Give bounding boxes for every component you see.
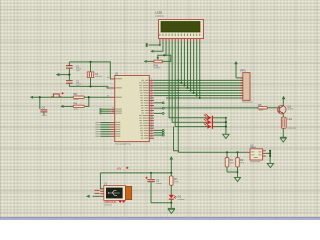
diode D5 over MCLR wire bbox=[51, 92, 64, 97]
LCD pins 1-14 bbox=[160, 38, 200, 41]
LED D2 bbox=[204, 114, 213, 120]
MCU left pin OSC2 bbox=[107, 86, 115, 88]
wire bus row D6 MCU to RP1 bbox=[154, 94, 243, 96]
wire MCLR net right bbox=[84, 96, 110, 98]
wire bus row D4 MCU to RP1 bbox=[154, 89, 243, 91]
wire bottom rail bbox=[100, 172, 172, 174]
wire LED D4 anode bbox=[205, 126, 207, 128]
capacitor C3 labels bbox=[156, 179, 162, 184]
svg-text:USBCONN: USBCONN bbox=[104, 201, 117, 204]
wire LCD VEE to pot wiper bbox=[158, 41, 166, 58]
crystal X1 labels bbox=[95, 72, 102, 77]
MCU left port-D pin 2 bbox=[95, 127, 114, 128]
svg-text:PIC16F877A: PIC16F877A bbox=[116, 142, 132, 146]
crystal X1 body bbox=[87, 72, 93, 78]
wire OSC2 net bbox=[69, 85, 110, 88]
RP1 part number bbox=[242, 102, 253, 103]
sounder LS1 labels bbox=[288, 118, 297, 128]
MCU NC stub y132.7 bbox=[154, 132, 164, 134]
svg-text:X1: X1 bbox=[95, 72, 99, 76]
capacitor C2 bbox=[66, 75, 73, 87]
svg-text:U2: U2 bbox=[115, 72, 119, 76]
MCU right pins bbox=[149, 80, 154, 138]
wire ground node to C3 bbox=[151, 202, 171, 204]
potentiometer RV1 labels bbox=[154, 64, 161, 69]
resistor pack RP1 label bbox=[241, 68, 247, 72]
wire R1-R2 join bbox=[227, 171, 238, 173]
wire LCD RW down to LED row bbox=[172, 41, 205, 122]
wire bus row D0 MCU to RP1 bbox=[154, 79, 243, 81]
MCU left port-D pin 5 bbox=[95, 133, 114, 134]
MCU NC stub y135.1 bbox=[154, 134, 164, 136]
MCU NC stub y108.15 bbox=[154, 107, 164, 109]
resistor R8 labels bbox=[74, 92, 79, 100]
transistor Q1 bbox=[277, 105, 286, 114]
svg-text:LS1: LS1 bbox=[288, 118, 293, 121]
MCU NC stub y113.4 bbox=[154, 112, 164, 114]
wire LCD D7 down bbox=[199, 41, 201, 99]
LED D3 bbox=[204, 118, 213, 124]
LCD pin name labels bbox=[159, 33, 200, 36]
wire U3 out bus bbox=[269, 150, 271, 157]
wire pot right up bbox=[162, 55, 171, 61]
MCU left mid pin 2 bbox=[99, 112, 114, 115]
resistor R1 body bbox=[225, 152, 229, 172]
window left edge bbox=[0, 0, 2, 220]
wire LED D3 cathode bbox=[213, 121, 226, 123]
terminal arrow VDD bbox=[150, 50, 153, 53]
wire LCD D2 down bbox=[183, 41, 185, 86]
USB connector J1 label bbox=[104, 182, 107, 186]
svg-text:RP1: RP1 bbox=[241, 68, 247, 72]
RP1 pins bbox=[240, 78, 242, 98]
wire Q1 collector bbox=[282, 99, 284, 105]
pot wiper arrow bbox=[157, 57, 160, 60]
wire crystal bottom bbox=[90, 78, 92, 87]
svg-text:LCD1: LCD1 bbox=[155, 10, 163, 14]
LED D1 bbox=[169, 195, 177, 200]
wire LCD D1 down bbox=[180, 41, 182, 84]
terminal arrow R4 bbox=[60, 105, 63, 108]
wire bus row D2 MCU to RP1 bbox=[154, 84, 243, 86]
microcontroller U2 label bbox=[115, 72, 119, 76]
wire LCD D5 down bbox=[193, 41, 195, 94]
power terminal Q1 bbox=[282, 96, 286, 100]
wire rail to J1 pin1 bbox=[100, 173, 103, 189]
U3 right pins bbox=[263, 151, 266, 156]
wire LS1 to ground bbox=[282, 128, 284, 137]
sounder LS1 body bbox=[281, 117, 286, 128]
wire MCLR net left bbox=[33, 96, 73, 98]
wire R2 to ground bbox=[237, 172, 239, 177]
wire D1 to ground node bbox=[170, 200, 172, 204]
MCU left port-D pin 0 bbox=[95, 122, 114, 123]
wire U3 out down bbox=[269, 157, 271, 164]
MCU left mid pin 0 bbox=[99, 107, 114, 110]
microcontroller U2 body bbox=[115, 76, 150, 142]
capacitor C4 bbox=[40, 109, 47, 115]
MCU left port-D pin 1 bbox=[95, 124, 114, 125]
capacitor C2 labels bbox=[76, 79, 81, 86]
svg-text:C4: C4 bbox=[42, 106, 46, 110]
svg-text:R7: R7 bbox=[174, 178, 178, 181]
svg-text:+5V: +5V bbox=[117, 167, 122, 171]
potentiometer RV1 body bbox=[154, 60, 162, 63]
resistor pack RP1 body bbox=[243, 73, 250, 101]
wire bus row D3 MCU to RP1 bbox=[154, 87, 243, 89]
MCU left port-D pin 6 bbox=[95, 136, 114, 137]
wire LCD VDD to terminal bbox=[153, 41, 163, 51]
wire bus row D7 to RP1 bbox=[166, 97, 243, 99]
regulator U3 part number bbox=[250, 161, 260, 162]
resistor R2 body bbox=[236, 152, 240, 172]
wire C4 lead bbox=[39, 97, 41, 109]
wire base R6 left bbox=[164, 107, 258, 109]
wire LED D4 cathode bbox=[213, 126, 226, 128]
MCU left port-D pin 4 bbox=[95, 131, 114, 132]
resistor R1 labels bbox=[230, 159, 234, 163]
MCU left mid pin 1 bbox=[99, 109, 114, 112]
resistor R4 labels bbox=[74, 102, 79, 110]
svg-text:C3: C3 bbox=[156, 179, 160, 182]
wire Q1 emitter bbox=[282, 114, 284, 118]
ground (D1) bbox=[168, 208, 175, 213]
wire LCD D3 down bbox=[186, 41, 188, 89]
resistor R6 labels bbox=[258, 104, 263, 110]
power terminal bottom bbox=[169, 156, 173, 173]
regulator U3 body bbox=[250, 149, 263, 160]
USB J1 pins bbox=[100, 189, 104, 197]
resistor R2 labels bbox=[240, 159, 244, 163]
wire crystal top bbox=[90, 62, 92, 72]
microcontroller U2 part number bbox=[116, 142, 132, 146]
wire LCD D0 down to 5V rail bbox=[177, 41, 179, 152]
MCU left pin OSC1 bbox=[107, 77, 115, 79]
wire LCD E down to LED row bbox=[175, 41, 205, 126]
svg-text:RV1: RV1 bbox=[154, 64, 160, 68]
wire bus row D1 MCU to RP1 bbox=[154, 82, 243, 84]
LCD LCD1 body bbox=[159, 20, 204, 39]
MCU right pin labels bbox=[139, 79, 152, 139]
power terminal RP1 bbox=[234, 61, 238, 78]
ground (U3 out) bbox=[267, 163, 273, 167]
wire bus row D5 MCU to RP1 bbox=[154, 92, 243, 94]
LCD LCD1 screen bbox=[161, 22, 200, 33]
wire caps common bbox=[59, 74, 70, 76]
wire R4 right bbox=[84, 96, 89, 106]
wire R4 left bbox=[64, 105, 74, 107]
wire LCD D6 down bbox=[196, 41, 198, 96]
transistor Q1 labels bbox=[288, 105, 294, 109]
resistor R7 body bbox=[170, 173, 174, 195]
wire LCD VSS to ground bbox=[149, 41, 161, 46]
ground (LS1) bbox=[280, 137, 286, 142]
MCU NC stub y130.4 bbox=[154, 129, 164, 131]
USB J1 part number bbox=[104, 200, 125, 205]
USB J1 pin labels bbox=[95, 190, 100, 194]
resistor R7 labels bbox=[174, 178, 179, 182]
window bottom edge strip bbox=[0, 217, 320, 220]
svg-text:R8: R8 bbox=[74, 92, 78, 96]
wire rail feed 2 bbox=[174, 127, 179, 153]
wire 5V rail bbox=[178, 151, 247, 153]
MCU left pin MCLR bbox=[107, 95, 115, 97]
wire base to Q1 bbox=[268, 107, 279, 109]
wire U3 out bbox=[266, 152, 270, 154]
wire LCD RS down to LED row bbox=[169, 41, 205, 118]
wire LCD D4 down bbox=[190, 41, 192, 91]
wire LED cathode bus bbox=[225, 117, 227, 134]
ground (R2) bbox=[234, 177, 240, 181]
terminal arrow MCLR bbox=[30, 96, 33, 99]
net label +5V bbox=[117, 167, 129, 171]
svg-text:LM016L: LM016L bbox=[155, 15, 165, 18]
svg-text:R2: R2 bbox=[240, 159, 244, 162]
terminal arrow osc common bbox=[56, 73, 60, 76]
U3 left pin bbox=[248, 151, 250, 153]
svg-text:C2: C2 bbox=[76, 79, 80, 83]
wire pot left to terminal bbox=[147, 60, 154, 62]
svg-text:J1: J1 bbox=[104, 182, 107, 186]
ground (LED bus) bbox=[223, 134, 229, 138]
svg-text:R4: R4 bbox=[74, 102, 78, 106]
MCU left port-D pin 3 bbox=[95, 129, 114, 130]
svg-text:R1: R1 bbox=[230, 159, 234, 162]
capacitor C4 labels bbox=[42, 106, 48, 116]
MCU left pin labels bbox=[115, 78, 122, 136]
resistor R6 body bbox=[258, 107, 268, 109]
wire LED D3 anode bbox=[205, 121, 207, 123]
wire RP1 common bbox=[236, 77, 243, 79]
resistor R8 body bbox=[73, 96, 84, 98]
USB connector J1 socket bbox=[126, 186, 132, 199]
wire gnd stem D1 bbox=[170, 203, 172, 209]
wire OSC1 net bbox=[69, 61, 110, 79]
capacitor C1 bbox=[66, 62, 73, 75]
LCD LCD1 label bbox=[155, 10, 165, 18]
MCU NC stub y102.8 bbox=[154, 102, 164, 104]
LED D4 bbox=[204, 123, 213, 129]
terminal arrow J1 bbox=[86, 195, 90, 198]
regulator U3 label bbox=[250, 144, 256, 147]
capacitor C1 labels bbox=[76, 64, 81, 71]
wire LED D2 anode bbox=[205, 117, 207, 119]
wire J1 terminal bbox=[93, 195, 101, 197]
svg-text:C1: C1 bbox=[76, 64, 80, 68]
LED D1 labels bbox=[178, 196, 185, 200]
terminal arrow pot-left bbox=[144, 60, 147, 63]
resistor R4 body bbox=[73, 105, 84, 107]
capacitor C3 bbox=[145, 173, 154, 203]
svg-text:Q1: Q1 bbox=[288, 105, 292, 108]
svg-text:D1: D1 bbox=[178, 196, 182, 199]
wire LED D2 cathode bbox=[213, 117, 226, 119]
USB connector J1 body bbox=[104, 186, 126, 201]
ground terminal (LCD VSS) bbox=[146, 43, 148, 47]
